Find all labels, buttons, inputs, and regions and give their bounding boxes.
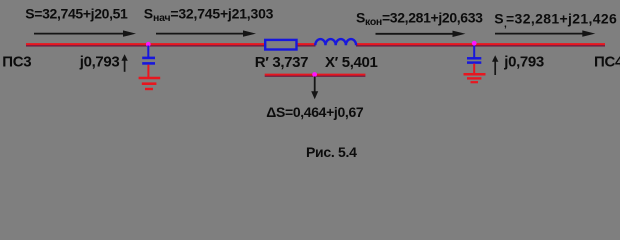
svg-text:R′ 3,737: R′ 3,737 (255, 54, 308, 71)
capacitor C2 (right shunt) (467, 46, 481, 63)
arrow: charging power up-arrow right (492, 55, 498, 75)
arrow: power flow Sкон (A3) (376, 31, 466, 37)
arrow: power flow S (A1) (34, 30, 136, 36)
ground (right) (464, 64, 486, 83)
svg-text:ПС4: ПС4 (594, 54, 620, 71)
svg-text:j0,793: j0,793 (503, 54, 544, 71)
svg-text:ΔS=0,464+j0,67: ΔS=0,464+j0,67 (266, 104, 364, 120)
wire: main line right segment X' to ПС4 (356, 44, 605, 46)
svg-text:ПС3: ПС3 (2, 53, 31, 70)
arrow: power flow Sнач (A2) (156, 30, 256, 36)
wire: main line segment between R' and X' (297, 44, 316, 46)
arrow: ΔS loss down-arrow (311, 77, 318, 100)
node M (loss tap node) (312, 72, 317, 77)
inductor X' (315, 39, 356, 45)
arrow: charging power up-arrow left (121, 54, 127, 72)
svg-text:S=32,745+j20,51: S=32,745+j20,51 (25, 6, 128, 22)
svg-text:Рис. 5.4: Рис. 5.4 (306, 144, 357, 160)
wire: main line left segment ПС3 to R' (26, 44, 265, 46)
node A (left shunt node) (146, 42, 151, 47)
ground (left) (139, 65, 161, 89)
node B (right shunt node) (472, 41, 477, 46)
arrow: power flow S, (A4) (495, 30, 595, 36)
svg-text:X′ 5,401: X′ 5,401 (325, 54, 378, 71)
capacitor C1 (left shunt) (142, 46, 155, 64)
wire: red underline below R' X' labels (265, 75, 366, 77)
svg-text:j0,793: j0,793 (79, 53, 120, 70)
resistor R' (265, 40, 296, 50)
